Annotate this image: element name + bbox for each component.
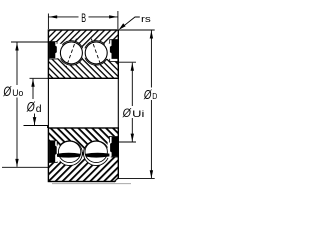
d bottom reference line	[24, 126, 48, 129]
Uo top reference line	[11, 41, 48, 43]
Uo arrow down	[15, 159, 18, 167]
right seal (upper, black)	[110, 39, 118, 59]
svg-text:Ø: Ø	[26, 100, 36, 115]
B arrow right	[109, 15, 117, 18]
OD dimension line	[150, 31, 152, 88]
Ui bottom reference line	[119, 141, 136, 143]
shadow line under lower section	[52, 183, 131, 185]
ball 2 (upper)	[85, 42, 107, 64]
OD arrow down	[150, 170, 153, 178]
ball pocket 1 (upper)	[59, 41, 83, 65]
outer ring hatch (upper section top)	[48, 30, 118, 53]
left seal (upper, black)	[49, 42, 57, 58]
svg-text:Ø: Ø	[122, 106, 132, 120]
left seal (lower, black)	[49, 141, 57, 162]
svg-text:B: B	[81, 13, 86, 25]
svg-text:Ui: Ui	[132, 109, 144, 120]
cavity passage left (upper)	[56, 44, 62, 59]
ball pocket 1 (lower)	[57, 141, 82, 166]
Ui arrow down	[131, 134, 134, 142]
contact angle dashed line ball 1	[66, 39, 76, 67]
B arrow left	[49, 15, 57, 18]
d dimension line	[32, 79, 34, 99]
right seal (lower, black)	[110, 137, 118, 157]
Uo bottom reference line	[2, 166, 48, 168]
svg-text:D: D	[152, 91, 157, 101]
inner ring hatch (upper section bottom)	[48, 53, 118, 79]
rs leader line	[120, 17, 140, 29]
Ui arrow up	[131, 63, 134, 71]
Ui dimension line	[131, 63, 133, 106]
upper section border	[48, 30, 118, 78]
right seal groove (lower)	[109, 137, 117, 158]
right seal groove (upper)	[110, 40, 118, 62]
ball 1 (upper)	[60, 42, 82, 64]
d top reference line (bore line extension)	[30, 77, 49, 79]
ball pocket 2 (lower)	[84, 141, 109, 166]
d arrow up	[31, 79, 34, 87]
lower section border	[48, 128, 118, 182]
raceway lip across ball 1 (lower)	[57, 153, 81, 158]
ball 1 (lower)	[58, 141, 80, 162]
bore edge right	[117, 78, 119, 128]
svg-text:rs: rs	[141, 14, 151, 25]
raceway lip across ball 2 (lower)	[85, 153, 109, 158]
outer ring hatch (lower section bottom)	[48, 154, 118, 182]
svg-text:Uo: Uo	[12, 88, 23, 99]
left seal groove (upper)	[49, 42, 57, 59]
svg-text:Ø: Ø	[143, 88, 152, 102]
B dimension line	[48, 16, 78, 18]
Uo arrow up	[15, 43, 18, 51]
Ui top reference line	[117, 61, 137, 63]
ball pocket 2 (upper)	[84, 41, 108, 65]
rs leader arrow	[119, 23, 126, 30]
OD top reference line	[118, 29, 154, 31]
Uo dimension line	[16, 43, 18, 86]
d arrow down	[33, 117, 37, 125]
contact angle dashed line ball 2	[91, 39, 101, 67]
ball 2 (lower)	[85, 141, 107, 162]
bore edge left	[47, 78, 49, 128]
OD arrow up	[150, 31, 153, 39]
svg-text:d: d	[36, 104, 42, 115]
waist between pockets (upper)	[82, 48, 85, 58]
OD chamfer lower-right corner	[115, 178, 120, 183]
B extension line left	[47, 14, 49, 30]
cavity passage left (lower)	[56, 146, 60, 162]
OD bottom reference line	[118, 178, 154, 180]
inner ring hatch (lower section top)	[48, 128, 118, 154]
B extension line right	[117, 11, 119, 29]
cavity passage right (lower)	[108, 143, 111, 159]
left seal groove (lower)	[49, 141, 57, 163]
cavity passage right (upper)	[105, 44, 111, 59]
svg-text:Ø: Ø	[3, 84, 13, 99]
